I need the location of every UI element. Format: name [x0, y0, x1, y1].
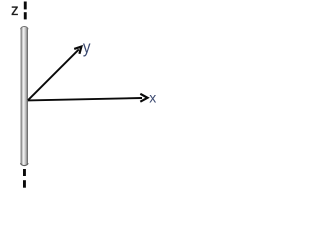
z-axis dashed line (bottom) — [23, 169, 26, 188]
x-axis arrowhead — [140, 94, 147, 102]
y-axis arrowhead — [74, 47, 81, 54]
z-axis dashed line (top) — [24, 2, 27, 20]
rod (vertical charged rod along z) — [21, 27, 28, 166]
svg-text:z: z — [11, 2, 19, 19]
svg-text:x: x — [149, 89, 156, 105]
svg-text:y: y — [83, 37, 91, 57]
x-axis arrow — [28, 94, 148, 102]
wire: x-axis shaft — [28, 98, 142, 100]
wire: y-axis shaft — [28, 49, 79, 100]
y-axis arrow — [28, 47, 81, 101]
